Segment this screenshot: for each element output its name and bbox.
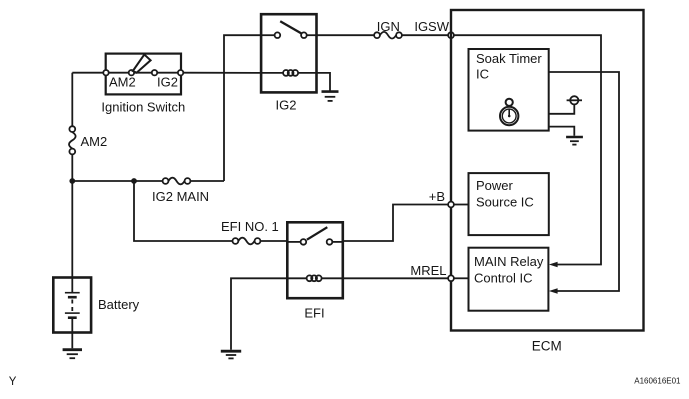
svg-text:MREL: MREL [410, 263, 446, 278]
IC U2 Power Source box [469, 173, 549, 235]
svg-text:A160616E01: A160616E01 [634, 376, 681, 385]
battery BAT box [53, 278, 91, 333]
relay IG2 contacts [261, 21, 316, 38]
svg-text:IC: IC [476, 67, 489, 82]
switch SW1 blade [133, 55, 151, 73]
node +B terminal [448, 202, 454, 208]
wire EFI relay contact to +B terminal [343, 205, 448, 242]
svg-text:IG2: IG2 [157, 75, 178, 90]
wire battery negative to ground [71, 333, 73, 349]
switch SW1 terminals and contacts [103, 70, 183, 75]
svg-text:MAIN Relay: MAIN Relay [474, 254, 544, 269]
arrow into MAIN Relay Control IC (from soak timer) [549, 288, 558, 294]
switch SW1 Ignition Switch box [106, 54, 181, 95]
ground (IG2 relay coil) [322, 92, 339, 101]
wire ignition switch IG2 terminal to relay coil [181, 72, 261, 74]
node terminal symbol (circle with bar) [567, 96, 582, 104]
battery BAT cells [65, 278, 80, 333]
fuse AM2 [69, 126, 76, 154]
svg-text:IG2 MAIN: IG2 MAIN [152, 189, 209, 204]
svg-text:AM2: AM2 [109, 75, 136, 90]
wire EFI NO.1 fuse to EFI relay contact [260, 240, 287, 242]
arrow into MAIN Relay Control IC (from IGSW) [549, 262, 558, 268]
wire +B terminal to Power Source IC [454, 204, 469, 206]
wire relay contact to IGN fuse [317, 34, 375, 36]
wire IG2 MAIN riser to relay contact [224, 35, 261, 181]
label MAIN Relay Control IC [474, 254, 544, 285]
wire IGSW internal run to MAIN relay control IC (upper arrow) [454, 35, 601, 264]
relay IG2 box [261, 14, 316, 92]
svg-text:EFI NO. 1: EFI NO. 1 [221, 219, 279, 234]
node junction battery/IG2 MAIN [69, 178, 75, 184]
svg-text:ECM: ECM [532, 338, 562, 353]
wire IG2 MAIN feed horizontal [72, 180, 224, 182]
node IGSW terminal [448, 32, 454, 38]
wire EFI branch from junction to EFI NO.1 fuse [134, 181, 233, 241]
wire soak timer output to MAIN relay control IC (lower arrow) [549, 72, 619, 291]
wire ignition feed horizontal to ignition switch AM2 terminal [72, 72, 105, 74]
label Power Source IC [476, 178, 534, 210]
wire soak timer to ground [549, 127, 575, 136]
fuse EFI NO. 1 [233, 238, 261, 245]
fuse IG2 MAIN [163, 178, 191, 185]
ground (EFI relay coil) [221, 351, 241, 358]
wire battery positive vertical (battery to AM2 fuse to ignition switch) [71, 73, 73, 278]
svg-text:IG2: IG2 [276, 98, 297, 113]
wire soak timer to terminal symbol [549, 105, 575, 114]
label Soak Timer IC [476, 51, 542, 82]
wire EFI coil to ground [231, 278, 287, 350]
icon stopwatch (soak timer) [500, 99, 518, 126]
svg-text:Battery: Battery [98, 297, 140, 312]
svg-text:Control IC: Control IC [474, 270, 533, 285]
relay EFI box [287, 222, 343, 298]
svg-text:Soak Timer: Soak Timer [476, 51, 542, 66]
wire IGN fuse to ECM IGSW terminal [402, 34, 449, 36]
relay EFI contacts [287, 227, 343, 245]
wire relay coil to ground [317, 73, 331, 91]
svg-text:+B: +B [429, 189, 445, 204]
svg-text:IGSW: IGSW [414, 19, 449, 34]
IC U1 Soak Timer box [469, 49, 549, 131]
svg-text:AM2: AM2 [81, 134, 108, 149]
wire MREL terminal to MAIN Relay Control IC [454, 277, 469, 279]
svg-text:Ignition Switch: Ignition Switch [101, 99, 185, 114]
relay EFI coil [287, 275, 343, 281]
relay IG2 coil [261, 70, 316, 76]
ECM box [451, 10, 644, 331]
fuse IGN [374, 32, 402, 39]
svg-text:IGN: IGN [377, 19, 400, 34]
svg-text:Y: Y [9, 376, 17, 388]
ground (battery) [63, 350, 82, 359]
node junction IG2 MAIN / EFI branch [131, 178, 137, 184]
node MREL terminal [448, 275, 454, 281]
svg-text:Source IC: Source IC [476, 195, 534, 210]
ground (soak timer) [566, 137, 583, 145]
svg-text:Power: Power [476, 178, 514, 193]
wire EFI coil to MREL terminal [343, 277, 448, 279]
svg-text:EFI: EFI [304, 306, 324, 321]
IC U3 MAIN Relay Control box [469, 248, 549, 311]
